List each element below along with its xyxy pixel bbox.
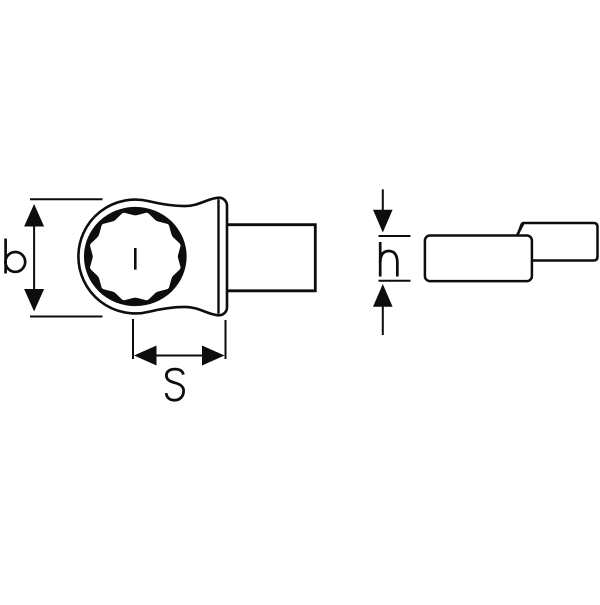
dimension h bottom arrowhead (pointing up) [373, 284, 393, 307]
dimension b arrow shaft [33, 210, 35, 305]
tang (top view) [227, 225, 315, 291]
label b [5, 239, 25, 274]
tang (side view, rounded rectangle) [425, 236, 532, 282]
dimension h top arrowhead (pointing down) [373, 210, 393, 233]
dimension b top extension line [30, 198, 103, 200]
dimension h top extension line [379, 235, 411, 237]
dimension S right arrowhead [202, 346, 225, 366]
label h [380, 242, 397, 277]
dimension S right extension line [225, 320, 227, 359]
ring head outline (top view) [78, 198, 227, 316]
dimension S left extension line [132, 319, 134, 359]
dimension h bottom arrow line [382, 304, 384, 335]
dimension S left arrowhead [134, 346, 157, 366]
head end-cap line [217, 199, 219, 314]
dimension h top arrow line [382, 189, 384, 212]
dimension b top arrowhead [24, 204, 44, 227]
head (side view, rounded rectangle behind tang) [514, 223, 598, 261]
label S [166, 369, 183, 400]
dimension S arrow shaft [140, 355, 219, 357]
12-point bore profile (white double-hex star) [90, 213, 180, 300]
dimension h bottom extension line [379, 280, 411, 282]
head side-view slanted left edge [517, 223, 523, 236]
dimension b bottom arrowhead [24, 289, 44, 312]
center mark [134, 248, 137, 270]
dimension b bottom extension line [30, 316, 103, 318]
12-point ring bore (black annulus) [84, 207, 187, 306]
